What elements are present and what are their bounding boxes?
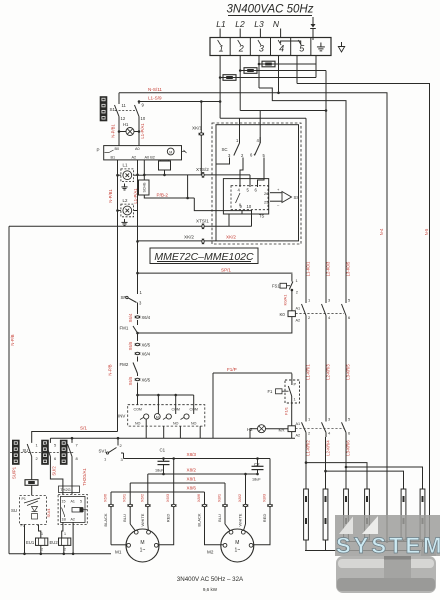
TH2G sensor element	[72, 508, 83, 513]
TH2G inner box	[61, 496, 86, 522]
K0 mechanical link dashed	[295, 313, 344, 315]
svg-text:SU: SU	[11, 508, 17, 513]
svg-text:L3-K0/5: L3-K0/5	[346, 261, 351, 276]
P box right tick	[182, 151, 186, 153]
connector XK/1 hooks	[201, 133, 203, 136]
filter line L3-PE	[259, 63, 316, 65]
svg-text:A0: A0	[135, 147, 140, 151]
svg-text:L1: L1	[216, 19, 226, 29]
svg-text:BLU: BLU	[217, 514, 222, 522]
svg-text:1~: 1~	[234, 548, 240, 554]
wire L1 KR/2 down to heater R1	[305, 437, 307, 489]
wire L3 KR/6 down to heater R3	[345, 437, 347, 489]
wire heater R2 bottom	[325, 540, 327, 551]
svg-text:RED: RED	[166, 514, 171, 523]
buzzer SS	[282, 192, 292, 203]
SU internal transistor	[24, 498, 40, 503]
S/1 wire from B1 rail to SU switch	[32, 432, 118, 443]
SP/1 wire	[138, 272, 293, 274]
wire TH2G A2 down to bus	[72, 522, 74, 553]
svg-text:S1: S1	[110, 107, 116, 112]
wire heater R6 bottom	[422, 540, 424, 542]
choke L2 toroid	[123, 206, 132, 215]
wire M1 white	[147, 474, 149, 524]
wire from terminal 3 down	[258, 56, 260, 89]
svg-text:18uF: 18uF	[252, 478, 261, 482]
svg-text:X6/6: X6/6	[103, 493, 108, 502]
TH2G internal blade	[64, 505, 66, 508]
connector X6/4b in chain	[137, 352, 139, 355]
svg-text:SCHB: SCHB	[143, 182, 147, 193]
inverter INV dashed box	[128, 405, 205, 426]
ground symbol below L2 choke	[124, 219, 126, 222]
svg-text:B0: B0	[115, 147, 120, 151]
wire B1 pin down long left line	[117, 160, 119, 432]
wire L2 down to K0 contact 3	[325, 71, 327, 304]
svg-text:X6/2: X6/2	[139, 493, 144, 502]
svg-text:11: 11	[122, 103, 127, 108]
bottom neutral bus	[9, 553, 111, 555]
svg-text:WHITE: WHITE	[238, 513, 243, 526]
choke L2 dashed box	[121, 204, 134, 217]
S1 pole 2 top lead	[138, 102, 140, 105]
svg-text:L2-KR/4: L2-KR/4	[326, 440, 331, 456]
INV feed stubs	[157, 395, 159, 414]
wire N into terminal 4	[280, 29, 282, 38]
thermostat TH2G name box	[59, 486, 80, 493]
control unit outer dashed box	[212, 123, 301, 244]
svg-text:X8/1: X8/1	[187, 477, 197, 482]
svg-text:N-P/B: N-P/B	[108, 364, 113, 375]
svg-text:BLU: BLU	[122, 514, 127, 522]
svg-text:10: 10	[247, 204, 252, 209]
svg-text:K0/A1: K0/A1	[283, 294, 288, 306]
wire M2 red	[253, 459, 270, 545]
svg-text:M: M	[156, 415, 159, 419]
heating element R6	[420, 489, 425, 540]
wire M1 red	[173, 459, 175, 525]
M2 terminal top-left	[229, 530, 233, 534]
power supply SU dashed box	[20, 495, 47, 524]
wire FS1 to K0 coil	[291, 290, 293, 311]
svg-text:N-P/B: N-P/B	[10, 334, 15, 345]
svg-text:M: M	[235, 540, 239, 546]
svg-text:SU/4: SU/4	[46, 508, 51, 518]
svg-text:BLACK: BLACK	[103, 513, 108, 526]
wire K0 A2 west to FM1 chain	[138, 317, 292, 333]
svg-text:TS: TS	[259, 214, 265, 219]
wire L3 into terminal 3	[259, 29, 261, 38]
wire SC throw3 down-left	[216, 158, 230, 165]
svg-text:X6/5: X6/5	[142, 378, 151, 383]
svg-text:6 *: 6 *	[250, 153, 255, 158]
F1 blade	[291, 374, 293, 386]
wire M1 black	[110, 492, 112, 545]
svg-text:L1-S/9: L1-S/9	[148, 96, 162, 101]
wire left line into L1 choke	[118, 174, 121, 176]
wire terminal5 to N-5 vertical	[297, 84, 430, 490]
wire KR A2 to bottom wire	[291, 432, 293, 439]
svg-text:A2: A2	[296, 319, 301, 323]
M1 terminal left	[127, 543, 131, 547]
wire ferrite to SU box	[31, 486, 33, 496]
FS1 blade	[289, 282, 293, 290]
svg-text:X8/2: X8/2	[237, 493, 242, 502]
junction N wire	[277, 92, 280, 95]
svg-text:C1: C1	[160, 448, 166, 453]
svg-text:X6/5: X6/5	[142, 343, 151, 348]
svg-text:X8/3: X8/3	[262, 493, 267, 502]
timer TS dashed box	[231, 186, 268, 210]
svg-text:N-5: N-5	[424, 228, 429, 235]
svg-text:X8/6: X8/6	[196, 493, 201, 502]
svg-text:XK/2: XK/2	[226, 235, 236, 240]
svg-text:X8/3: X8/3	[187, 452, 197, 457]
svg-text:L3-KR/5: L3-KR/5	[346, 364, 351, 380]
connector X6/4 in chain	[137, 316, 139, 319]
INV relay contacts	[144, 414, 149, 419]
svg-text:L2: L2	[123, 198, 128, 203]
svg-text:9,6 kW: 9,6 kW	[203, 587, 218, 592]
svg-text:NO: NO	[173, 422, 179, 426]
S1 pole2 lead down to P box	[138, 117, 140, 146]
heating element R5	[401, 489, 406, 540]
control unit inner solid box	[216, 125, 299, 241]
svg-text:EU2: EU2	[50, 540, 59, 545]
chain wire into INV	[137, 383, 139, 405]
ferrite filter FB3	[223, 75, 236, 81]
svg-text:S/1: S/1	[80, 426, 87, 431]
wire SU pin4 down to EU1	[39, 525, 41, 538]
wire N-4 end at heater bus	[386, 540, 389, 543]
svg-text:H1: H1	[123, 122, 129, 127]
thermostat TH2G dashed box	[58, 494, 87, 524]
choke L1 dashed box	[121, 169, 134, 182]
X8/3 wire	[124, 458, 271, 460]
wire SU P2 down to bus	[24, 525, 26, 554]
svg-text:SYSTEM: SYSTEM	[336, 533, 440, 558]
svg-text:A1: A1	[296, 307, 301, 311]
heater bus lower	[305, 550, 423, 552]
X8/6 wire	[111, 491, 205, 493]
svg-text:X6/3: X6/3	[165, 493, 170, 502]
X8/2 wire	[148, 473, 258, 475]
svg-text:A2: A2	[296, 434, 301, 438]
ferrite filter FB2	[244, 68, 257, 74]
XTS/1 line from left rail	[9, 225, 252, 227]
wire SU pole3 up to bottom long wire	[71, 438, 73, 443]
P box internal contact	[105, 152, 110, 154]
wire A0/B2 pins down to small box	[160, 160, 162, 161]
wire TS pin10 down to XTS/1	[251, 210, 253, 226]
S1 pole 2 contact blade 9-10	[135, 105, 140, 117]
wire M2 blue	[224, 483, 226, 524]
motor M1 circle	[126, 529, 159, 562]
wire heater R1 bottom	[305, 540, 307, 551]
filter line L1-PE	[220, 77, 316, 79]
svg-text:F1/P: F1/P	[227, 367, 237, 372]
M2 terminal left	[223, 543, 227, 547]
SU internal diode	[32, 507, 38, 512]
svg-text:NO: NO	[191, 422, 197, 426]
svg-text:18uF: 18uF	[155, 469, 164, 473]
svg-text:1~: 1~	[140, 548, 146, 554]
earth symbol above terminal	[312, 17, 314, 24]
svg-text:L1-KR/1: L1-KR/1	[306, 364, 311, 380]
wire L2 down into SC contact 4	[259, 111, 261, 144]
M1 terminal top-left	[134, 530, 138, 534]
choke L1 toroid	[123, 171, 132, 180]
svg-text:X6/4: X6/4	[128, 313, 133, 322]
wire N-5 end at heater bus	[429, 489, 431, 542]
SU switch plate label 2	[42, 440, 49, 465]
left rail wire from XTS/1 down	[8, 226, 10, 554]
filter line L2 east	[240, 70, 326, 72]
svg-text:TH2G: TH2G	[60, 487, 70, 492]
svg-text:KR: KR	[279, 428, 285, 433]
svg-text:XTS/2: XTS/2	[196, 167, 209, 172]
wire M2 white	[245, 474, 247, 524]
INV feed line from chain	[138, 394, 194, 396]
heating element R1	[304, 489, 309, 540]
svg-text:N-P/B1: N-P/B1	[111, 124, 116, 138]
jumper wire terminal 4 to 5	[281, 41, 301, 45]
svg-text:F1: F1	[268, 389, 274, 394]
wire A1 pin down	[143, 160, 145, 180]
svg-text:P/B-2: P/B-2	[157, 193, 169, 198]
SC pole2 blade	[255, 143, 261, 156]
solid box around TS	[223, 179, 268, 214]
svg-text:XK/2: XK/2	[184, 235, 194, 240]
svg-text:P: P	[97, 148, 100, 153]
svg-text:L1-P/A1: L1-P/A1	[140, 123, 145, 139]
wire P/B-2 riser to XTS/2 line	[187, 175, 189, 198]
pump unit P box	[104, 146, 182, 160]
XTS/2 line drop into TS	[249, 175, 251, 187]
ground symbol below L1 choke	[124, 184, 126, 187]
junction L1 at terminal1 wire	[219, 100, 222, 103]
wire SC throw2 down to TS pin4	[240, 158, 243, 188]
SU internal resistor	[32, 514, 38, 520]
svg-text:XTS/1: XTS/1	[196, 219, 209, 224]
svg-text:FM2: FM2	[120, 362, 129, 367]
svg-text:X8/6: X8/6	[187, 486, 197, 491]
wire TH2G 1B down to EU2	[62, 522, 63, 537]
branch wire L2 to heater R5	[326, 471, 404, 489]
svg-text:B1: B1	[111, 156, 116, 160]
svg-text:1: 1	[64, 532, 66, 536]
svg-text:SU/2: SU/2	[52, 466, 57, 476]
svg-text:X8/1: X8/1	[217, 493, 222, 502]
chain wire A2 down to SP	[137, 175, 139, 273]
wire L1 branch down to SC contact 1	[239, 118, 241, 143]
svg-text:1B: 1B	[62, 518, 67, 522]
wire PE into earth cell	[312, 29, 314, 38]
svg-text:M: M	[140, 540, 144, 546]
wire from terminal 1 down	[219, 56, 221, 102]
bottom long wire	[50, 437, 295, 439]
M1 terminal top-right	[147, 530, 151, 534]
wire L2 choke right stub	[134, 210, 138, 212]
motor M2 circle	[221, 529, 254, 562]
svg-text:L2: L2	[235, 19, 245, 29]
wire solid box to XTS/1 line	[228, 214, 230, 226]
svg-text:FS1: FS1	[272, 284, 280, 289]
svg-text:L2-KR/3: L2-KR/3	[326, 364, 331, 380]
wire L1 down to K0 contact 1	[305, 118, 307, 303]
svg-text:L2-K0/3: L2-K0/3	[326, 261, 331, 276]
svg-text:15: 15	[62, 500, 66, 504]
SC pole1 top lead	[239, 137, 241, 143]
svg-text:1: 1	[219, 44, 224, 54]
wire TS pin9 down	[241, 210, 243, 214]
S1 pole 1 contact blade 11-12	[115, 105, 120, 117]
chassis ground symbol right of terminal	[341, 42, 343, 47]
svg-text:P: P	[294, 382, 297, 387]
KR mechanical link dashed	[295, 428, 344, 430]
svg-text:4: 4	[279, 44, 284, 54]
svg-text:A1: A1	[71, 500, 75, 504]
svg-text:26: 26	[264, 191, 269, 196]
wire left line into L2 choke	[118, 210, 121, 212]
svg-text:X6/4: X6/4	[142, 352, 151, 357]
wire M2 black	[205, 492, 224, 545]
F1/P wire	[213, 372, 292, 374]
svg-text:A2: A2	[71, 518, 75, 522]
wire F1 to KR coil	[291, 398, 293, 426]
svg-text:X8/2: X8/2	[187, 468, 197, 473]
INV output stubs to bottom wire	[145, 419, 147, 426]
heating element R4	[365, 489, 370, 540]
svg-text:12: 12	[121, 116, 126, 121]
XTS/2 line	[144, 174, 250, 176]
svg-text:A2: A2	[132, 156, 137, 160]
wire SP to X6/4	[137, 303, 139, 315]
wire net L1 from S1/9 east	[139, 101, 220, 103]
svg-text:SU/P1: SU/P1	[12, 466, 17, 479]
svg-text:L1-K0/1: L1-K0/1	[306, 261, 311, 276]
wire L1 corner down	[219, 102, 221, 119]
svg-text:P1: P1	[22, 497, 26, 501]
heating element R3	[344, 489, 349, 540]
wire heater R4 bottom	[366, 540, 368, 542]
M2 terminal top-right	[241, 530, 245, 534]
wire from terminal 4 (N) down	[278, 56, 280, 93]
svg-text:3N400V AC 50Hz – 32A: 3N400V AC 50Hz – 32A	[177, 576, 244, 583]
wire H2 left down to bottom wire	[249, 429, 251, 439]
branch wire L3 to heater R6	[346, 467, 423, 489]
wire from terminal 5 down	[296, 56, 298, 84]
wire heater R3 bottom	[345, 540, 347, 551]
heating element R2	[323, 489, 328, 540]
svg-text:M2: M2	[207, 550, 214, 555]
module name plate MME72C-MME102C	[150, 248, 258, 264]
svg-text:3N400VAC 50Hz: 3N400VAC 50Hz	[227, 4, 314, 16]
controller module SCHB box	[139, 180, 150, 195]
wire L1 choke to A1 junction	[134, 174, 145, 176]
SU switch plate label 1	[12, 440, 19, 465]
watermark photo block	[335, 515, 440, 593]
M1 terminal right	[154, 543, 158, 547]
rating plate label left of S1	[100, 97, 107, 122]
svg-text:L1: L1	[123, 163, 128, 168]
connector XTS/2 hooks	[202, 174, 205, 176]
svg-text:F1/1: F1/1	[284, 406, 289, 415]
svg-text:X6/5: X6/5	[128, 341, 133, 350]
branch wire L1 to heater R4	[306, 463, 367, 489]
wire from terminal 2 down	[239, 56, 241, 111]
svg-text:3: 3	[259, 44, 264, 54]
wire heater R5 bottom	[403, 540, 405, 542]
connector hooks M2 wires	[204, 504, 206, 507]
wire from PE cell down	[315, 56, 317, 78]
svg-text:K0: K0	[280, 312, 286, 317]
svg-text:RED: RED	[262, 514, 267, 523]
svg-text:N-S/11: N-S/11	[148, 87, 162, 92]
SU switch plate label 3	[60, 440, 67, 465]
F1/P riser to bottom wire	[212, 373, 214, 438]
wire net N from S1/11 to N-4 vertical	[119, 93, 387, 542]
phase wires K0 to KR	[305, 317, 307, 422]
svg-text:X6/4: X6/4	[142, 315, 151, 320]
wire SU pole2 up to bottom long wire	[49, 438, 51, 443]
connector XTS/1 hooks	[202, 226, 205, 228]
XK/2 line	[138, 240, 217, 242]
heater bus upper	[346, 541, 430, 543]
ferrite on SU wire	[25, 480, 38, 486]
svg-text:25: 25	[264, 200, 269, 205]
svg-text:A0 B2: A0 B2	[145, 156, 155, 160]
svg-text:NO: NO	[135, 422, 141, 426]
svg-text:M: M	[169, 150, 172, 154]
TS internal blade	[236, 193, 241, 203]
svg-text:N-P/B1: N-P/B1	[108, 189, 113, 203]
wire A2 pin down chain	[137, 160, 139, 175]
svg-text:EU1: EU1	[26, 540, 35, 545]
wire L2 KR/4 down to heater R2	[325, 437, 327, 489]
svg-text:WHITE: WHITE	[140, 513, 145, 526]
svg-text:SP/1: SP/1	[221, 268, 231, 273]
svg-text:X6/5: X6/5	[128, 376, 133, 385]
M2 terminal right	[249, 543, 253, 547]
wire P/B-2 lower branch	[194, 198, 251, 226]
svg-text:INV: INV	[118, 414, 125, 419]
wire L2 west-east link to SC pole 2	[240, 110, 326, 112]
connector X6/5b in chain	[137, 378, 139, 381]
svg-text:SC: SC	[222, 147, 228, 152]
wire M1 blue	[129, 483, 131, 524]
SU gang dashed link	[10, 452, 74, 454]
X8/1 wire	[130, 482, 225, 484]
wire SU pole3 down to TH2G A1	[71, 458, 73, 494]
S1 gang dashed link	[115, 110, 137, 112]
terminal PE earth symbol in cell	[320, 43, 322, 47]
heater bus link	[422, 542, 424, 551]
wire L1 down through XK/1	[200, 102, 202, 175]
svg-text:10: 10	[141, 116, 146, 121]
SC pole2 top lead	[259, 137, 261, 143]
svg-text:FM1: FM1	[120, 326, 129, 331]
wire L1 east to K0 column	[220, 117, 306, 119]
svg-text:BLACK: BLACK	[197, 513, 202, 526]
small interface box below A0 B2	[159, 161, 171, 170]
connector hooks M1 wires	[110, 504, 112, 507]
wire L1 into terminal 1	[219, 29, 221, 38]
svg-text:SS: SS	[294, 195, 300, 200]
svg-text:1: 1	[41, 532, 43, 536]
connector XK/2 hooks	[202, 241, 205, 243]
wire SC throw5 down to TS pin6	[258, 158, 265, 188]
